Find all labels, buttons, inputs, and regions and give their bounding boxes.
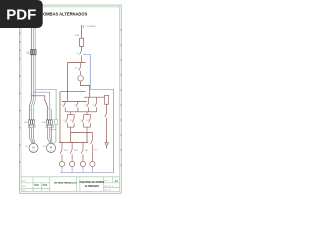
breaker Q1 — [30, 50, 36, 55]
wire phase bus blue to branch2 — [33, 92, 50, 120]
svg-text:43: 43 — [70, 120, 72, 122]
bus E to bus F stems — [71, 132, 87, 142]
contact S1 — [80, 51, 82, 63]
svg-text:43: 43 — [86, 120, 88, 122]
coil branch KM1 — [60, 142, 62, 161]
breaker pole green branch2 — [54, 119, 57, 124]
svg-text:KT1: KT1 — [94, 149, 97, 151]
svg-text:21: 21 — [93, 104, 95, 106]
svg-text:Escala 1:1: Escala 1:1 — [104, 186, 113, 188]
motor M1 — [29, 143, 38, 152]
svg-text:ESQUEMA DE MANDO: ESQUEMA DE MANDO — [79, 181, 104, 184]
contactor KM2 poles — [46, 120, 52, 124]
svg-text:Verif.: Verif. — [22, 189, 27, 192]
overload relay F2 bar — [46, 125, 54, 127]
PDF badge — [0, 0, 43, 28]
wire timer to bus — [81, 82, 90, 98]
left return wire — [59, 92, 61, 143]
bus B wire — [60, 91, 86, 93]
contact drop 2 — [76, 101, 78, 111]
wire fuse to contact — [81, 46, 83, 50]
svg-text:95: 95 — [77, 53, 79, 55]
coil branch KA1 — [81, 142, 83, 161]
contact drop 4 — [95, 97, 97, 112]
relay box right chain — [105, 95, 109, 104]
svg-text:KA1: KA1 — [85, 149, 89, 152]
contact drop 1 — [63, 101, 65, 111]
fuse F1 — [80, 38, 84, 46]
wire right chain down — [105, 104, 107, 142]
svg-text:21: 21 — [74, 104, 76, 106]
svg-text:13: 13 — [85, 104, 87, 106]
wire bus A left drop — [67, 63, 69, 102]
wire phase bus brown to branch2 — [31, 96, 47, 121]
overload relay F1 bar — [28, 125, 35, 127]
svg-text:Folio: Folio — [104, 181, 108, 183]
svg-text:ALTERNADO: ALTERNADO — [85, 185, 99, 188]
bus A wire — [68, 62, 86, 64]
wire phase L1 vertical — [29, 29, 31, 121]
svg-text:A4: A4 — [115, 179, 119, 183]
svg-text:1 3 5: 1 3 5 — [47, 108, 51, 110]
neutral wire blue — [60, 54, 113, 172]
contactor KM1 poles — [29, 120, 35, 124]
bus C wire — [84, 96, 105, 98]
bus D wire — [65, 111, 96, 113]
wire phase bus green to branch2 — [35, 89, 56, 119]
bus E wire — [71, 131, 93, 133]
contact labels specks — [61, 53, 94, 122]
node L1 terminal — [31, 28, 35, 30]
wire phase L3 vertical — [34, 29, 36, 121]
svg-text:13: 13 — [61, 104, 63, 106]
svg-text:L1 NEGRO: L1 NEGRO — [86, 26, 97, 28]
drawing frame inner border — [21, 7, 120, 192]
svg-text:1 3 5: 1 3 5 — [29, 110, 33, 112]
svg-text:Autor: Autor — [22, 179, 27, 182]
motor M2 — [46, 143, 55, 152]
wire branch2 to motor — [47, 125, 52, 143]
svg-text:KM1: KM1 — [64, 150, 68, 152]
contact drop 3 — [87, 97, 89, 112]
connector arrow right chain — [105, 143, 108, 146]
title block — [21, 177, 120, 192]
svg-text:KM2: KM2 — [74, 150, 78, 152]
svg-text:13: 13 — [63, 120, 65, 122]
wire branch1 to motor — [29, 125, 34, 143]
control feed wire — [81, 25, 83, 38]
svg-text:13: 13 — [80, 120, 82, 122]
seal-in loop 2 — [82, 112, 91, 133]
timer coil circle — [78, 76, 84, 82]
drawing frame outer border — [20, 5, 122, 193]
frame tick marks right — [120, 30, 121, 165]
frame tick marks left — [19, 33, 20, 162]
svg-text:8/06: 8/06 — [43, 184, 48, 187]
wire phase L2 vertical — [32, 29, 34, 121]
svg-text:8/06: 8/06 — [34, 184, 39, 187]
contact KT1 mid rail — [79, 63, 81, 75]
svg-text:Dibuj.: Dibuj. — [22, 186, 27, 188]
bus F wire — [59, 141, 88, 143]
svg-text:PDF: PDF — [6, 7, 36, 24]
svg-text:SISTEMA HIDRAULICO: SISTEMA HIDRAULICO — [54, 182, 77, 185]
coil branch KM2 — [70, 142, 72, 161]
svg-text:Folio 1/1: Folio 1/1 — [104, 190, 111, 192]
coil neutral stubs — [62, 167, 92, 173]
coil branch KT1 — [91, 132, 93, 161]
terminal mark feed — [82, 25, 84, 29]
seal-in loop 1 — [66, 112, 75, 133]
bus B2 wire — [62, 100, 87, 102]
